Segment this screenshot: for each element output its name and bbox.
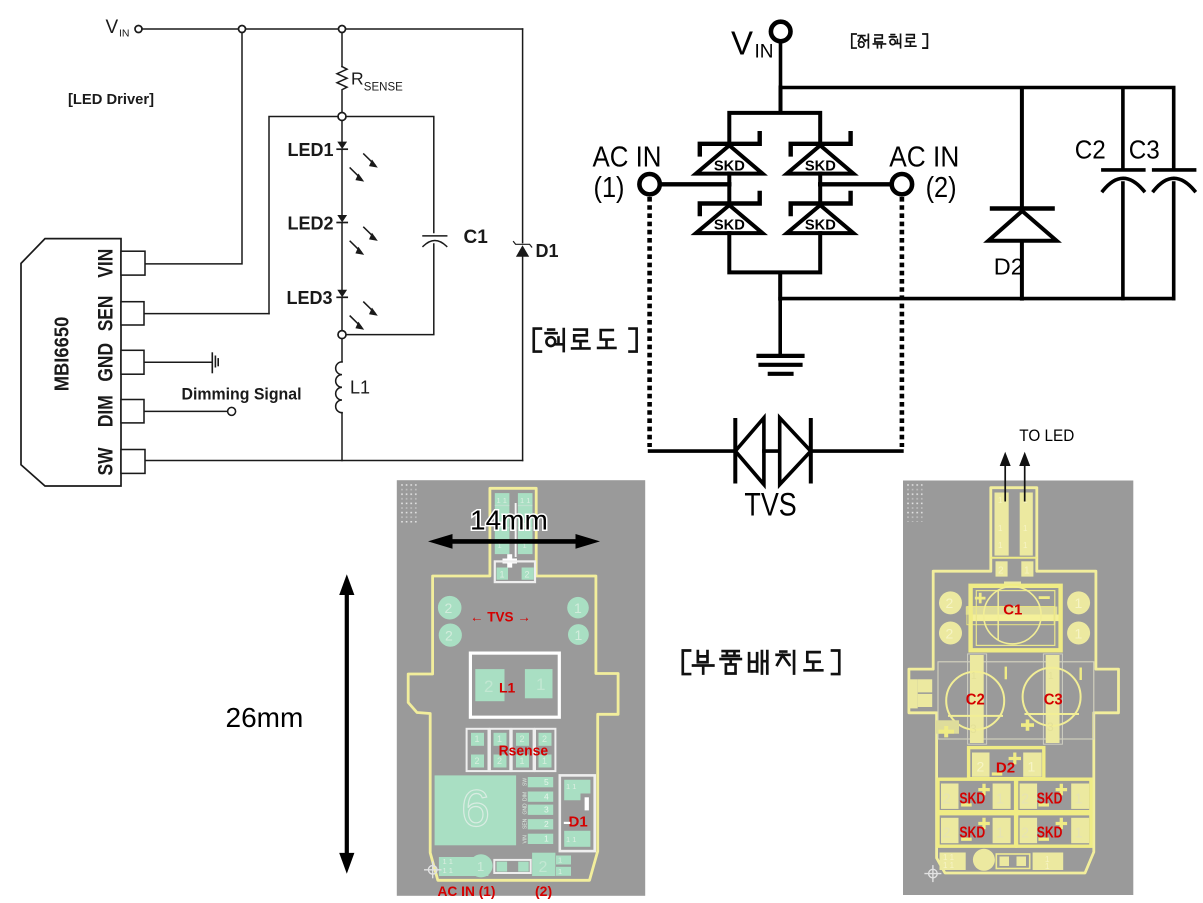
tvs pad bottom-left 2: [439, 624, 462, 647]
svg-text:VIN: VIN: [523, 835, 529, 844]
svg-text:DIM: DIM: [523, 792, 529, 801]
svg-text:V: V: [106, 17, 119, 38]
tvs pad top-left 2: [438, 596, 462, 620]
svg-text:1: 1: [1075, 595, 1083, 611]
terminal AC IN 1: [639, 174, 659, 194]
svg-text:1: 1: [1075, 826, 1083, 842]
mount pad bottom-left 2 right pcb: [939, 622, 962, 645]
svg-text:1: 1: [998, 524, 1003, 533]
LED1: [337, 121, 378, 182]
svg-text:3: 3: [970, 722, 977, 736]
caption rectifier korean: [852, 34, 928, 48]
svg-text:2: 2: [998, 566, 1004, 577]
svg-text:1: 1: [475, 734, 480, 744]
node junction B: [339, 26, 346, 33]
wire right branch down to D1: [522, 29, 524, 243]
svg-text:D2: D2: [996, 760, 1015, 777]
label AC IN 1: [593, 142, 662, 204]
svg-text:1: 1: [996, 826, 1004, 842]
node junction C (top of LED string): [338, 113, 346, 121]
svg-text:AC IN: AC IN: [889, 142, 959, 174]
pin VIN: [121, 251, 145, 275]
inductor module L1: [470, 653, 559, 717]
silk rect around C2 C3: [938, 662, 1094, 739]
svg-text:2: 2: [943, 792, 951, 808]
svg-text:IN: IN: [119, 28, 130, 40]
svg-text:SKD: SKD: [1037, 825, 1063, 842]
svg-text:1: 1: [574, 600, 582, 616]
svg-text:2: 2: [542, 734, 547, 744]
pad AC IN 1: [439, 854, 493, 877]
svg-text:2: 2: [484, 677, 493, 696]
svg-text:1: 1: [998, 541, 1003, 550]
terminal dimming: [228, 407, 236, 415]
connector pads tab right: [990, 493, 1037, 577]
wire VIN pin to rail: [145, 33, 242, 264]
svg-text:SKD: SKD: [959, 825, 985, 842]
dimension arrow horizontal: [428, 534, 600, 549]
schottky diode SKD upper-left: [696, 133, 763, 174]
wire bottom rail: [780, 297, 1173, 301]
svg-text:SKD: SKD: [959, 791, 985, 808]
svg-text:2: 2: [475, 756, 480, 766]
svg-text:C1: C1: [464, 227, 489, 248]
schottky diode SKD lower-left: [696, 193, 763, 234]
wire DIM: [145, 410, 227, 412]
bottom pads right pcb: [940, 849, 1064, 871]
capacitor C1: [423, 236, 447, 247]
wire between right diodes: [818, 174, 822, 204]
svg-text:Rsense: Rsense: [499, 744, 548, 760]
svg-text:SENSE: SENSE: [364, 82, 403, 94]
svg-text:VIN: VIN: [95, 249, 118, 278]
schottky diode SKD lower-right: [787, 193, 854, 234]
wire C2 branch: [1121, 89, 1125, 299]
pin GND: [121, 350, 144, 374]
svg-text:AC IN: AC IN: [593, 142, 662, 174]
caption circuit-diagram korean: [534, 329, 637, 352]
wire LED2-LED3: [341, 223, 343, 290]
wire TVS right: [811, 449, 902, 453]
capacitor C3: [1154, 170, 1195, 191]
svg-text:SEN: SEN: [95, 295, 118, 331]
svg-text:2: 2: [946, 626, 954, 642]
svg-text:6: 6: [461, 780, 490, 838]
pcb photo background right: [903, 481, 1133, 896]
svg-text:2: 2: [977, 759, 985, 775]
schottky diode D1: [514, 242, 532, 257]
diode module SKD bottom-left: [938, 814, 1016, 847]
svg-text:(2): (2): [535, 883, 552, 899]
svg-text:1: 1: [1075, 626, 1083, 642]
wire D2 branch: [1020, 89, 1024, 299]
node junction A: [239, 26, 246, 33]
svg-text:GND: GND: [95, 343, 118, 382]
svg-text:SW: SW: [95, 447, 118, 476]
wire VIN down: [779, 44, 783, 88]
svg-text:1: 1: [1048, 671, 1054, 682]
svg-text:SEN: SEN: [523, 818, 529, 829]
wire L1 to SW rail: [341, 413, 343, 461]
svg-text:C1: C1: [1003, 602, 1022, 619]
svg-text:C3: C3: [1129, 135, 1160, 165]
svg-text:TO LED: TO LED: [1019, 426, 1074, 445]
wire rail to Rsense: [341, 33, 343, 67]
svg-text:L1: L1: [499, 680, 516, 696]
terminal VIN: [135, 26, 142, 33]
svg-text:1: 1: [998, 496, 1003, 505]
schottky diode SKD upper-right: [787, 133, 854, 174]
svg-text:SW: SW: [523, 778, 529, 786]
wire C1 box right side: [346, 117, 434, 335]
svg-text:1 1: 1 1: [443, 857, 453, 866]
svg-text:1 1: 1 1: [566, 782, 576, 791]
diode module SKD top-right: [1017, 779, 1091, 812]
svg-text:2: 2: [539, 859, 548, 876]
LED2: [337, 215, 378, 255]
diode module SKD top-left: [938, 779, 1016, 812]
mount pad top-right 1 right pcb: [1067, 591, 1090, 614]
pcb photo background left: [397, 480, 645, 896]
svg-text:IN: IN: [755, 42, 774, 63]
svg-text:C3: C3: [1044, 691, 1063, 708]
wire LED1-LED2: [341, 149, 343, 215]
svg-text:1: 1: [536, 675, 545, 694]
wire C3 branch: [1172, 89, 1176, 299]
node junction D (bottom of LED string): [338, 331, 346, 339]
svg-text:1: 1: [575, 627, 583, 643]
svg-text:[LED Driver]: [LED Driver]: [68, 91, 154, 108]
arrow to led 2: [1019, 452, 1030, 502]
svg-text:DIM: DIM: [95, 395, 118, 427]
svg-text:LED1: LED1: [288, 140, 334, 160]
svg-text:2: 2: [1021, 792, 1029, 808]
svg-text:1: 1: [500, 570, 505, 580]
svg-text:3: 3: [544, 805, 549, 815]
svg-text:2: 2: [445, 600, 453, 616]
dotted wire AC1 to TVS: [647, 197, 652, 447]
svg-text:3: 3: [1047, 720, 1054, 734]
mount pad top-left 2 right pcb: [939, 591, 962, 614]
terminal AC IN 2: [892, 174, 912, 194]
pin SEN: [121, 302, 144, 325]
svg-text:1: 1: [971, 671, 977, 682]
svg-text:D1: D1: [536, 241, 559, 261]
tvs pad top-right 1: [567, 597, 589, 619]
svg-text:← TVS →: ← TVS →: [470, 610, 531, 625]
wire AC IN 1: [663, 182, 730, 186]
svg-text:Dimming Signal: Dimming Signal: [182, 386, 302, 404]
pad AC IN 2: [532, 853, 571, 876]
svg-text:2: 2: [520, 734, 525, 744]
wire SEN: [144, 313, 269, 315]
svg-text:AC IN (1): AC IN (1): [438, 883, 496, 899]
fiducial cross: [503, 554, 518, 567]
svg-text:1: 1: [558, 856, 562, 865]
svg-text:1 1: 1 1: [566, 835, 576, 844]
resistor bank Rsense: [467, 729, 556, 771]
diode D2: [988, 209, 1056, 241]
diode module D1: [560, 775, 595, 851]
board outline left pcb: [408, 488, 618, 880]
svg-text:C2: C2: [966, 691, 985, 708]
svg-text:1 1: 1 1: [443, 866, 453, 875]
svg-text:V: V: [731, 25, 753, 62]
wire top rail: [781, 86, 1174, 90]
arrow to led 1: [1000, 452, 1011, 502]
board outline right pcb: [909, 488, 1119, 873]
tvs pad bottom-right 1: [568, 624, 589, 645]
svg-text:26mm: 26mm: [226, 702, 304, 733]
node VIN label: [106, 17, 130, 40]
svg-text:MBI6650: MBI6650: [52, 317, 74, 392]
svg-text:R: R: [351, 68, 364, 88]
capacitor C1 module: [966, 582, 1061, 651]
capacitor C3 module: [1021, 654, 1081, 744]
svg-text:5: 5: [544, 777, 549, 787]
svg-text:14mm: 14mm: [470, 504, 548, 535]
svg-text:C2: C2: [1075, 135, 1106, 165]
svg-text:L1: L1: [350, 378, 370, 398]
wire C1 box top-left: [269, 117, 338, 314]
svg-text:2: 2: [445, 628, 453, 644]
wire bridge bottom: [729, 233, 820, 299]
svg-text:(2): (2): [926, 172, 957, 204]
LED3: [337, 290, 378, 330]
svg-text:1: 1: [558, 867, 562, 876]
wire SW rail: [144, 460, 523, 462]
pin DIM: [121, 400, 144, 423]
svg-text:2: 2: [1021, 826, 1029, 842]
svg-text:LED2: LED2: [288, 213, 334, 233]
svg-text:D2: D2: [994, 254, 1024, 280]
dimension arrow vertical: [339, 574, 354, 874]
svg-text:2: 2: [544, 819, 549, 829]
svg-text:TVS: TVS: [744, 487, 796, 523]
svg-text:1: 1: [996, 792, 1004, 808]
svg-text:D1: D1: [569, 814, 588, 831]
wire GND: [145, 361, 211, 363]
ground symbol: [212, 353, 218, 372]
wire to ground: [778, 299, 782, 354]
connector block small: [495, 561, 535, 582]
fiducial crosshair right pcb: [924, 865, 941, 882]
dotted wire AC2 to TVS: [900, 197, 905, 447]
pin SW: [121, 450, 145, 474]
diode module D2: [969, 748, 1044, 779]
svg-text:GND: GND: [523, 803, 529, 815]
IC pin pads column: [523, 777, 554, 844]
wire VIN rail: [142, 28, 523, 30]
label AC IN 2: [889, 142, 959, 204]
IC U1 MBI6650 body: [21, 239, 121, 486]
svg-text:1: 1: [544, 834, 549, 844]
svg-text:1: 1: [1045, 862, 1050, 871]
wire TVS left: [650, 449, 736, 453]
bump pads left side: [909, 679, 932, 708]
mount pad bottom-right 1 right pcb: [1067, 622, 1090, 645]
wire D1 to SW rail: [522, 257, 524, 461]
capacitor C2 module: [936, 654, 1006, 744]
wire between left diodes: [727, 174, 731, 204]
svg-text:1: 1: [1023, 524, 1028, 533]
svg-text:1: 1: [497, 734, 502, 744]
svg-text:1: 1: [1028, 759, 1036, 775]
ground symbol: [759, 356, 803, 374]
label RSENSE: [351, 68, 403, 93]
caption component-placement korean: [683, 651, 839, 675]
svg-text:SKD: SKD: [1037, 791, 1063, 808]
svg-text:1: 1: [1075, 792, 1083, 808]
wire LED3 to bottom node: [341, 297, 343, 330]
svg-text:1: 1: [1024, 566, 1030, 577]
fiducial crosshair left pcb: [424, 861, 442, 878]
svg-text:1 1: 1 1: [943, 861, 955, 870]
jumper block bottom: [494, 860, 530, 873]
terminal VIN: [771, 22, 791, 42]
resistor RSENSE: [337, 67, 347, 113]
capacitor C2: [1103, 170, 1144, 191]
wire bridge top: [729, 88, 820, 144]
wire AC IN 2: [820, 182, 889, 186]
svg-text:1: 1: [1023, 541, 1028, 550]
svg-text:(1): (1): [594, 172, 625, 204]
svg-text:LED3: LED3: [287, 288, 333, 308]
svg-text:2: 2: [525, 570, 530, 580]
wire node D to L1: [341, 339, 343, 362]
connector pad tab left: [495, 493, 533, 557]
inductor L1: [336, 362, 342, 413]
svg-text:4: 4: [544, 792, 549, 802]
TVS bidirectional diode: [735, 418, 811, 485]
svg-text:2: 2: [946, 595, 954, 611]
svg-text:1: 1: [477, 859, 484, 874]
IC chip pad: [435, 775, 516, 845]
svg-text:2: 2: [943, 826, 951, 842]
node VIN label: [731, 25, 774, 63]
diode module SKD bottom-right: [1017, 814, 1091, 847]
